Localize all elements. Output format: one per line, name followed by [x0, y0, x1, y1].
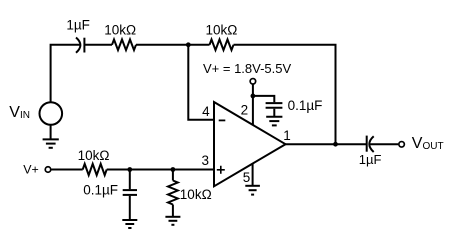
svg-text:1µF: 1µF	[359, 152, 382, 167]
svg-text:0.1µF: 0.1µF	[83, 182, 118, 197]
svg-text:1: 1	[283, 128, 291, 143]
svg-text:2: 2	[241, 103, 249, 118]
svg-text:4: 4	[202, 104, 210, 119]
svg-text:10kΩ: 10kΩ	[104, 23, 136, 38]
svg-text:3: 3	[202, 153, 210, 168]
svg-text:10kΩ: 10kΩ	[78, 148, 110, 163]
svg-text:10kΩ: 10kΩ	[206, 23, 238, 38]
svg-text:10kΩ: 10kΩ	[180, 187, 212, 202]
svg-text:V+: V+	[23, 163, 39, 177]
svg-text:V+ = 1.8V-5.5V: V+ = 1.8V-5.5V	[203, 61, 292, 76]
svg-text:0.1µF: 0.1µF	[288, 98, 323, 113]
svg-text:5: 5	[243, 170, 251, 185]
svg-text:1µF: 1µF	[66, 18, 90, 33]
